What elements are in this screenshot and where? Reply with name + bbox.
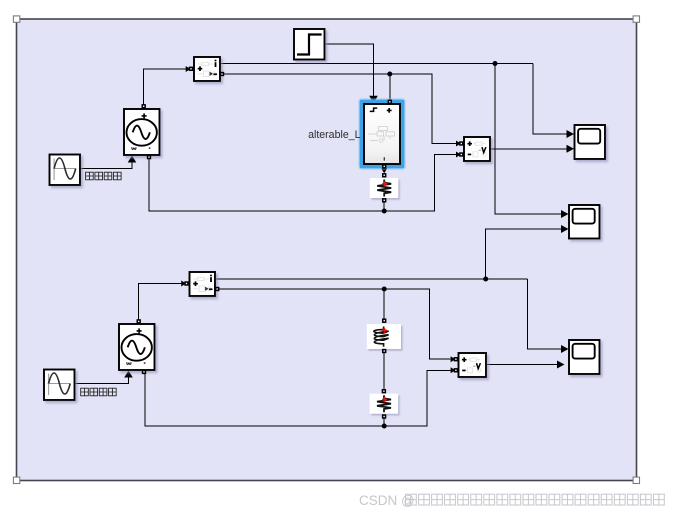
wire: U1 v output to Scope1 input 2 bbox=[490, 148, 567, 150]
Scope1 bbox=[575, 125, 606, 159]
top-left resize handle bbox=[13, 16, 19, 22]
voltage measurement U2 v label bbox=[477, 363, 481, 369]
current measurement I1 faint icon bbox=[198, 62, 216, 76]
arrowhead into Scope2 input 1 bbox=[561, 210, 569, 218]
R1 top port bbox=[382, 173, 386, 177]
arrowhead into Scope3 input 2 bbox=[557, 361, 565, 369]
node B junction bbox=[387, 72, 392, 77]
node A junction bbox=[493, 61, 498, 66]
R2 bottom port bbox=[382, 414, 386, 418]
label 电压设置 (block 1) bbox=[86, 172, 122, 180]
sine-wave voltage setting block 1 icon axes bbox=[53, 159, 75, 181]
wire: I2 signal output to node D and scope3 branch bbox=[215, 278, 528, 280]
current measurement I2 bbox=[190, 272, 216, 296]
alterable_L bottom port label bbox=[384, 157, 385, 160]
arrowhead into U2 + input bbox=[451, 356, 456, 362]
step source block bbox=[294, 29, 325, 60]
I2 - output port bbox=[215, 287, 219, 291]
wire: sine setting block 2 to V2 control input bbox=[74, 378, 129, 384]
voltage measurement U2 arrow mark bbox=[473, 365, 476, 367]
wire: I2 - terminal to node E and V-meas U2 + input bbox=[218, 289, 451, 359]
alterable_L plus sign bbox=[387, 108, 392, 113]
arrowhead into Scope3 input 1 bbox=[561, 345, 569, 353]
controlled voltage source V1 minus mark bbox=[149, 147, 151, 149]
controlled voltage source V2 plus sign bbox=[137, 328, 142, 333]
U1 + input port bbox=[459, 141, 463, 145]
alterable_L selection highlight bbox=[358, 98, 405, 169]
label 电压设置 (block 2) bbox=[81, 388, 117, 396]
wire: node D branch to Scope3 input 1 bbox=[528, 279, 562, 349]
sine-wave voltage setting block 1 icon sine curve bbox=[54, 158, 76, 179]
voltage measurement U1 arrow mark bbox=[479, 149, 482, 151]
wire: R1 bottom to rail node C bbox=[383, 202, 385, 211]
voltage measurement U2 minus sign bbox=[462, 370, 465, 372]
current measurement I1 plus sign bbox=[198, 66, 203, 71]
resistor R2 icon bbox=[377, 395, 391, 412]
wire: node A down to Scope2 input 1 bbox=[495, 64, 562, 215]
svg-text:alterable_L: alterable_L bbox=[308, 129, 361, 141]
alterable_L + port bbox=[388, 100, 392, 104]
V2 + port bbox=[137, 319, 141, 323]
R2 top port bbox=[382, 389, 386, 393]
voltage measurement U2 plus sign bbox=[462, 357, 467, 362]
Scope2 bbox=[569, 205, 600, 239]
Scope3 screen bbox=[573, 344, 595, 359]
current measurement I2 arrow mark bbox=[205, 287, 208, 291]
wire: sine setting block 1 to V1 control input bbox=[80, 163, 132, 169]
wire: U2 v output to Scope3 input 2 bbox=[486, 364, 558, 366]
Scope1 screen bbox=[578, 129, 600, 144]
resistor R1 background bbox=[370, 178, 399, 198]
current measurement I2 minus sign bbox=[209, 288, 213, 290]
current measurement I1 bbox=[194, 57, 220, 81]
R1 bottom port bbox=[382, 198, 386, 202]
alterable_L - port bbox=[382, 164, 386, 168]
wire: node B down to alterable_L + terminal bbox=[389, 74, 391, 100]
arrowhead into V1 s input bbox=[128, 156, 137, 163]
sine-wave voltage setting block 2 bbox=[44, 370, 75, 401]
arrowhead into Scope1 input 2 bbox=[567, 145, 575, 153]
wire: node E down to inductor L2 top bbox=[383, 289, 385, 319]
arrowhead into V2 s input bbox=[124, 371, 133, 378]
Scope2 screen bbox=[573, 209, 595, 224]
node C junction bbox=[382, 209, 387, 214]
arrowhead into U2 - input bbox=[451, 367, 456, 373]
sine-wave voltage setting block 1 bbox=[50, 155, 81, 186]
wire: source V2 + terminal to current measurement I2 input bbox=[139, 284, 184, 320]
wire: I1 - terminal to node B and V-meas U1 + input bbox=[224, 74, 457, 144]
wire: I1 signal output (i) to node A and scope branch bbox=[220, 63, 533, 65]
voltage measurement U1 minus sign bbox=[468, 154, 471, 156]
voltage measurement U1 faint icon bbox=[468, 142, 486, 157]
node E junction bbox=[382, 287, 387, 292]
voltage measurement U1 plus sign bbox=[467, 141, 472, 146]
arrowhead into U1 + input bbox=[456, 141, 461, 147]
V2 - port bbox=[142, 370, 146, 374]
inductor L2 icon bbox=[374, 327, 389, 347]
wire: bottom rail of circuit 2, V2 - to U2 - input bbox=[145, 370, 451, 426]
watermark chinese text bbox=[406, 494, 665, 505]
node D junction bbox=[483, 277, 488, 282]
controlled voltage source V2 circle bbox=[122, 334, 152, 361]
bottom-left resize handle bbox=[13, 477, 19, 483]
U1 - input port bbox=[459, 152, 463, 156]
current measurement I1 i label bbox=[215, 60, 217, 67]
alterable_L faint contents preview bbox=[368, 127, 395, 143]
I2 input port bbox=[184, 281, 188, 285]
Scope3 bbox=[569, 340, 600, 374]
sine-wave voltage setting block 2 icon sine curve bbox=[49, 373, 71, 394]
current measurement I2 i label bbox=[210, 275, 212, 282]
current measurement I1 arrow mark bbox=[210, 72, 213, 76]
U2 + input port bbox=[454, 357, 458, 361]
U2 - input port bbox=[454, 368, 458, 372]
arrowhead into I2 input port bbox=[181, 281, 186, 287]
alterable_L signal-in icon bbox=[370, 108, 377, 111]
current measurement I2 plus sign bbox=[193, 281, 198, 286]
controlled voltage source V2 minus mark bbox=[144, 362, 146, 364]
controlled voltage source V2 sine glyph bbox=[128, 341, 145, 355]
wire: alterable_L - terminal to resistor R1 bbox=[383, 164, 385, 172]
arrowhead into U1 - input bbox=[456, 152, 461, 158]
wire: inductor L2 bottom to resistor R2 top bbox=[383, 353, 385, 389]
wire: Step block output to alterable_L signal input bbox=[325, 44, 374, 96]
controlled voltage source V2 s label bbox=[127, 362, 131, 364]
inductor L2 background bbox=[367, 324, 401, 349]
wire: bottom rail of circuit 1, source V1 - to U1 - input bbox=[149, 155, 456, 212]
svg-text:CSDN @: CSDN @ bbox=[359, 493, 415, 508]
current measurement I2 faint icon bbox=[193, 277, 211, 291]
voltage measurement U2 bbox=[459, 353, 487, 377]
arrowhead into Scope2 input 2 bbox=[561, 225, 569, 233]
arrowhead into I1 input port bbox=[186, 66, 191, 72]
node F junction bbox=[382, 424, 387, 429]
controlled voltage source V1 s label bbox=[132, 147, 136, 149]
wire: node A to Scope1 input 1 bbox=[533, 64, 567, 135]
voltage measurement U2 faint icon bbox=[463, 358, 481, 373]
I1 input port bbox=[189, 67, 193, 71]
current measurement I1 minus sign bbox=[213, 73, 217, 75]
voltage measurement U1 bbox=[464, 137, 490, 161]
L2 top port bbox=[382, 319, 386, 323]
sine-wave voltage setting block 2 icon axes bbox=[48, 374, 70, 396]
controlled voltage source V1 plus sign bbox=[142, 113, 147, 118]
arrowhead into alterable_L signal input bbox=[369, 96, 378, 104]
bottom-right resize handle bbox=[633, 477, 639, 483]
top-right resize handle bbox=[633, 16, 639, 22]
resistor R2 background bbox=[370, 394, 399, 414]
voltage measurement U1 v label bbox=[482, 147, 486, 153]
I1 - output port bbox=[220, 72, 224, 76]
L2 bottom port bbox=[382, 349, 386, 353]
resistor R1 icon bbox=[377, 180, 391, 197]
controlled voltage source V1 bbox=[124, 109, 160, 155]
controlled voltage source V2 bbox=[119, 324, 155, 370]
arrowhead into Scope1 input 1 bbox=[567, 130, 575, 138]
alterable_L subsystem block bbox=[364, 104, 400, 164]
arrowhead into R1 top port bbox=[381, 168, 388, 174]
controlled voltage source V1 circle bbox=[127, 119, 157, 146]
V1 + port bbox=[142, 104, 146, 108]
wire: node D up to Scope2 input 2 bbox=[486, 229, 562, 279]
wire: R2 bottom to rail node F bbox=[383, 419, 385, 426]
step block icon bbox=[297, 35, 322, 55]
controlled voltage source V1 sine glyph bbox=[133, 126, 150, 140]
wire: source V1 + terminal to current measurement I1 input bbox=[144, 69, 189, 105]
V1 - port bbox=[147, 155, 151, 159]
